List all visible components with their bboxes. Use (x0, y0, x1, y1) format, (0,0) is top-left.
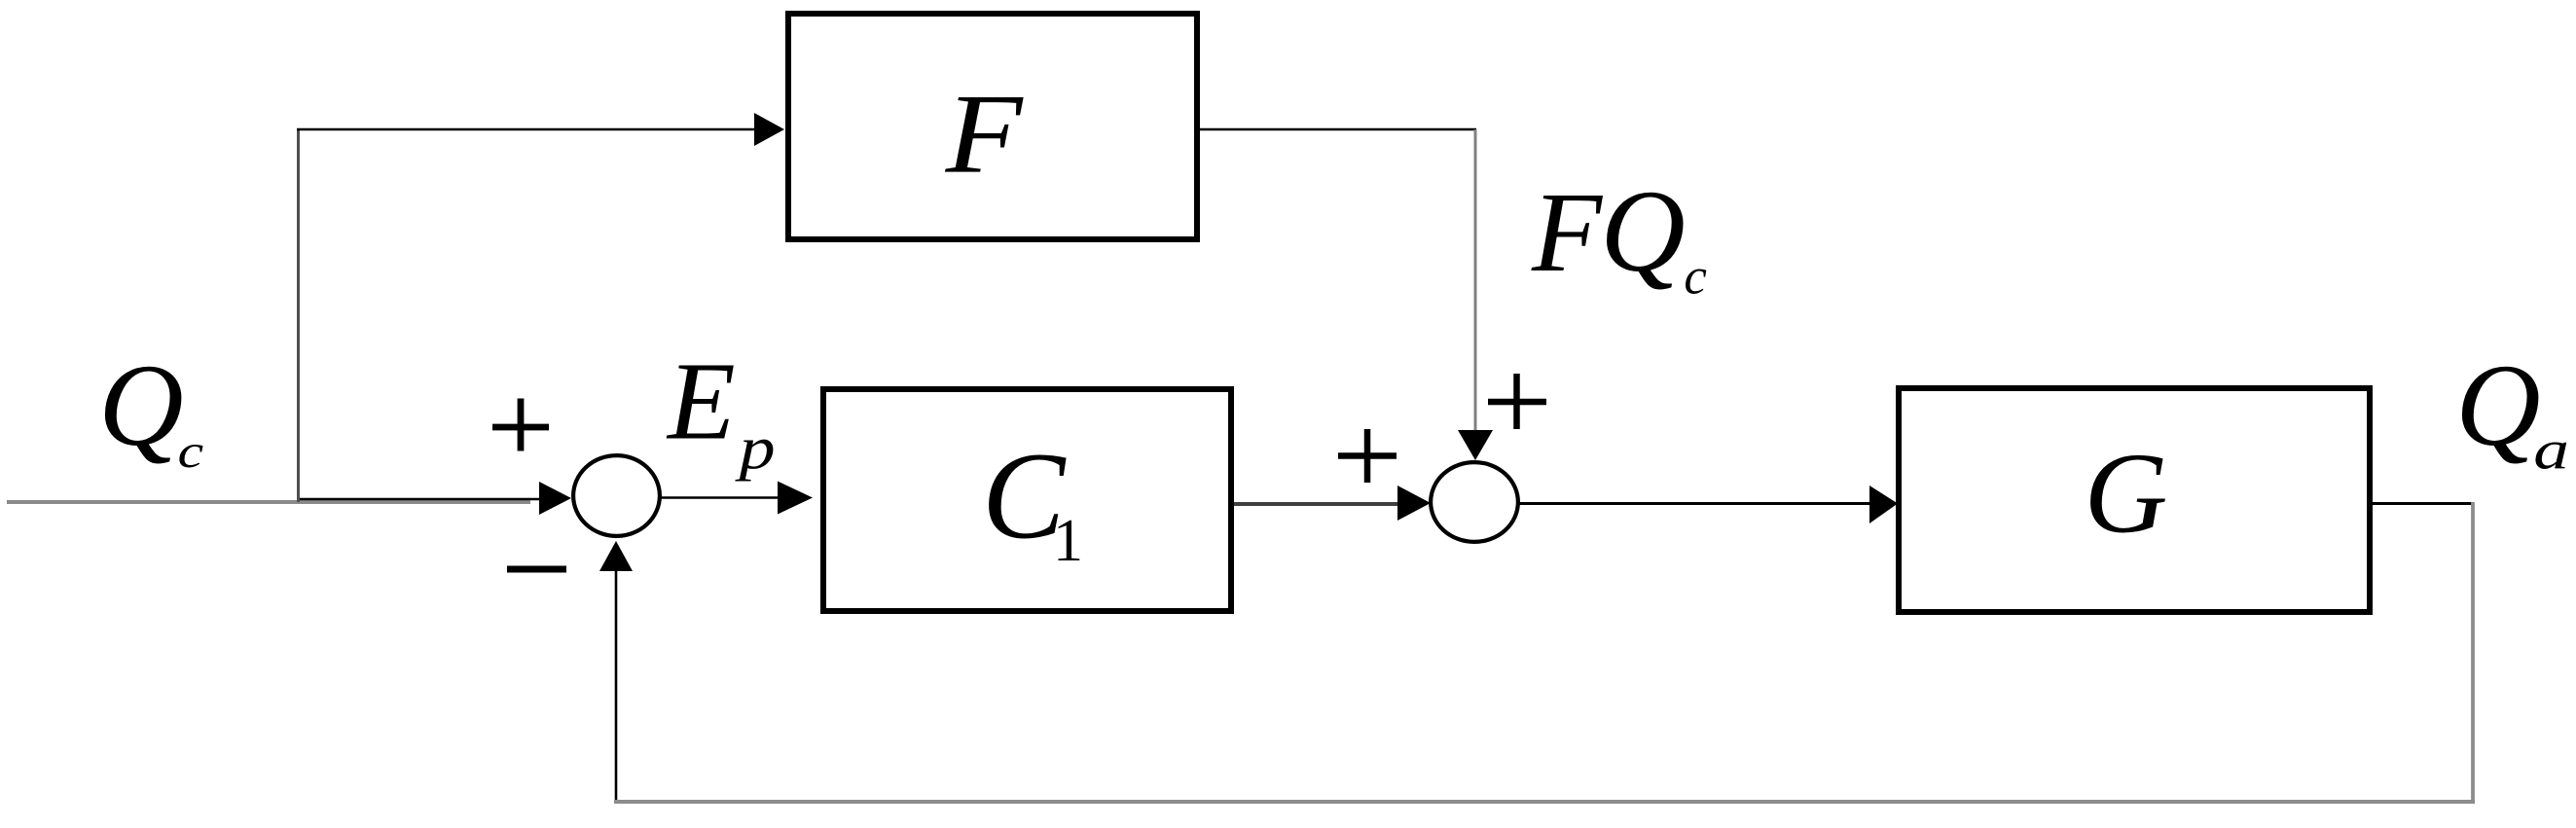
svg-text:G: G (2085, 428, 2168, 557)
wire: FQc vertical drop (gray) (1474, 129, 1477, 432)
wire: Qc input line (black segment) (298, 498, 540, 501)
svg-text:F: F (944, 72, 1024, 198)
wire: horizontal into F (297, 128, 756, 131)
plus sign above S2 (1488, 374, 1546, 429)
minus sign at S1 (507, 566, 566, 573)
svg-text:p: p (735, 415, 776, 482)
block F (788, 14, 1197, 239)
arrowhead into summing junction S2 (top) (1458, 430, 1493, 460)
wire: Qc input line (gray segment) (7, 500, 530, 504)
summing junction S2 (1431, 462, 1518, 542)
wire: feedback bottom (gray) (614, 800, 2475, 804)
arrowhead into block F (754, 113, 784, 146)
wire: feedback vertical (right, gray) (2471, 502, 2475, 800)
svg-text:E: E (666, 339, 736, 462)
plus sign at S1 (492, 399, 549, 451)
arrowhead into summing junction S2 (left) (1397, 486, 1431, 521)
wire: C1 to S2 (1234, 502, 1398, 506)
wire: G output (2373, 502, 2474, 505)
block G (1899, 388, 2370, 612)
arrowhead into summing junction S1 (bottom) (599, 541, 633, 571)
svg-text:Q: Q (98, 341, 183, 471)
block C1 (823, 389, 1231, 611)
arrowhead into block C1 (778, 482, 813, 515)
wire: S1 to C1 (659, 496, 779, 499)
plus sign left of S2 (1338, 429, 1397, 483)
wire: branch vertical up to F (297, 129, 300, 502)
wire: F output (1200, 128, 1476, 131)
svg-text:Q: Q (2455, 341, 2540, 471)
svg-text:c: c (1684, 249, 1707, 306)
svg-text:F: F (1531, 168, 1604, 296)
svg-text:Q: Q (1600, 166, 1685, 297)
svg-text:c: c (178, 424, 204, 478)
summing junction S1 (573, 455, 660, 536)
wire: feedback riser up to S1 (615, 571, 618, 800)
arrowhead into summing junction S1 (left) (539, 482, 571, 515)
arrowhead into block G (1869, 486, 1898, 523)
wire: S2 to G (1517, 502, 1871, 505)
svg-text:a: a (2533, 420, 2569, 482)
svg-text:1: 1 (1053, 508, 1083, 574)
